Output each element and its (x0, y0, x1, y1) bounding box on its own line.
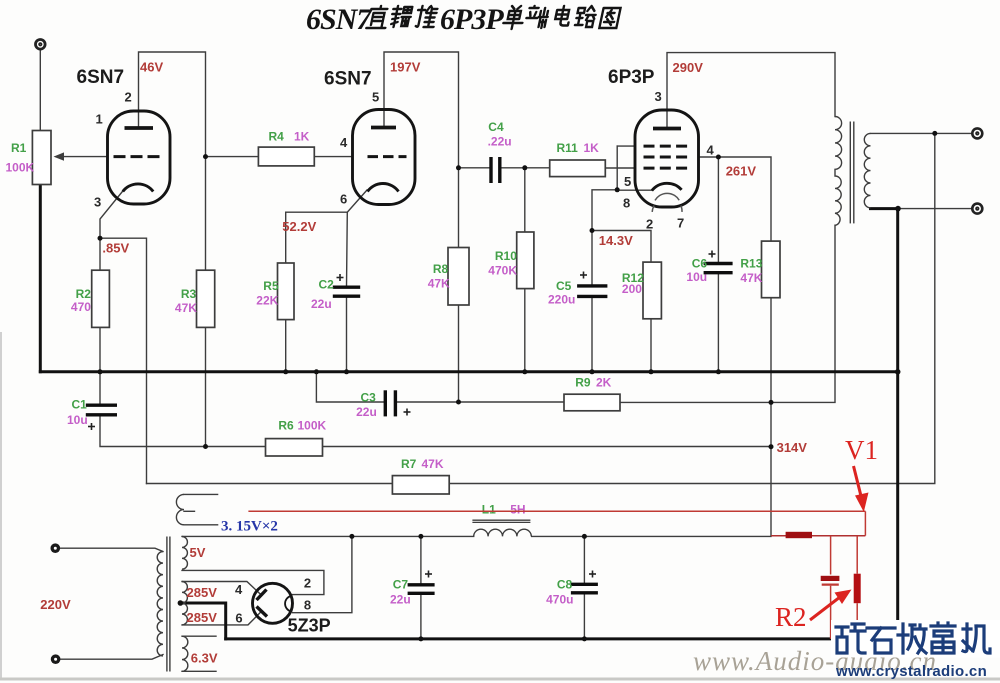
wire R10 top lead (524, 168, 526, 232)
svg-text:6P3P: 6P3P (608, 67, 655, 88)
wire 220V bottom terminal to primary (60, 655, 164, 660)
wire filament winding top tap (184, 493, 218, 495)
wire filament winding center tap (184, 510, 195, 512)
svg-text:6: 6 (340, 192, 347, 207)
wire R11 right to tube3 grid1 (605, 167, 635, 169)
wire B+ line from 5V winding to L1 (182, 535, 474, 537)
mains terminal top (51, 543, 61, 553)
resistor R6 (266, 439, 323, 456)
C6 plus (709, 253, 716, 255)
svg-text:C5: C5 (556, 279, 572, 293)
wire C6 bottom lead (717, 273, 719, 372)
title hanzi duan (524, 6, 550, 28)
inductor L1 core (472, 519, 530, 521)
red lower edge segment (771, 535, 865, 537)
svg-text:3: 3 (655, 89, 662, 104)
wire OPT secondary top feedback tap vertical drawn above (898, 208, 972, 210)
resistor R8 (448, 248, 469, 306)
tube V2 plate (653, 127, 681, 131)
svg-text:285V: 285V (187, 610, 218, 625)
junction ground line C8 (582, 636, 587, 641)
svg-text:10u: 10u (67, 413, 88, 427)
wire filament winding bottom tap (184, 524, 218, 526)
tube V1b cathode arc (368, 183, 399, 191)
tube V2 cathode arc (652, 183, 682, 190)
title hanzi dan (502, 6, 526, 29)
svg-text:L1: L1 (482, 503, 496, 517)
junction secondary top feedback tap (932, 131, 937, 136)
svg-text:46V: 46V (140, 60, 163, 75)
wire C1 top lead (99, 372, 101, 405)
ground bus (40, 370, 897, 373)
tube V2 heater arc (655, 193, 679, 200)
scan border left edge (0, 332, 2, 678)
junction B+ line C7 (418, 534, 423, 539)
junction ground bus C6 (716, 369, 721, 374)
rectifier plate pin6 (257, 607, 268, 617)
junction tube3 cathode tie (615, 187, 620, 192)
title hanzi tu (599, 8, 620, 28)
resistor R5 (278, 263, 295, 320)
red resistor R2-mod body (854, 574, 861, 604)
svg-text:4: 4 (340, 135, 348, 150)
wire 14.3V node to R12 top (592, 231, 651, 263)
svg-text:2: 2 (125, 90, 132, 105)
title hanzi dian (554, 6, 572, 26)
wire tube3 g2 to pin4 node (699, 156, 719, 158)
svg-text:.22u: .22u (488, 134, 512, 148)
resistor R7 (392, 476, 449, 494)
wire OPT secondary top to terminal (871, 132, 973, 134)
svg-text:22u: 22u (311, 297, 332, 311)
watermark white panel (831, 620, 1000, 658)
resistor R4 (258, 147, 314, 166)
junction ground bus R10 (522, 369, 527, 374)
svg-text:R5: R5 (263, 279, 279, 293)
svg-text:52.2V: 52.2V (282, 219, 316, 234)
wire B+ subrail R6 right to 314V node (323, 446, 772, 448)
wire R2 top lead (99, 238, 101, 270)
scan border bottom strip (0, 678, 1000, 681)
wire C7 bottom lead (420, 593, 422, 639)
wire C6 top lead (717, 157, 719, 264)
tube V2 grid1 dashes (644, 167, 691, 170)
junction R3 subrail (203, 444, 208, 449)
wire R1 bottom riser thick (39, 185, 42, 372)
svg-text:.85V: .85V (102, 240, 129, 255)
svg-text:V1: V1 (845, 435, 878, 465)
svg-text:7: 7 (677, 215, 684, 230)
svg-text:100K: 100K (298, 419, 327, 433)
svg-text:290V: 290V (673, 60, 704, 75)
junction 14.3V node (590, 228, 595, 233)
red branch resistor lead upper (856, 536, 858, 574)
PT 6.3V winding (182, 636, 188, 671)
svg-text:2: 2 (646, 216, 653, 231)
junction B+ line C8 (582, 534, 587, 539)
svg-text:C2: C2 (319, 278, 335, 292)
tube V2 heater leg pin2 (652, 206, 654, 212)
svg-text:220V: 220V (40, 597, 71, 612)
wire input terminal to R1 top (39, 49, 41, 131)
svg-text:4: 4 (235, 582, 243, 597)
svg-text:6P3P: 6P3P (440, 3, 504, 36)
svg-text:6SN7: 6SN7 (306, 3, 372, 36)
C3 plus (404, 411, 411, 413)
wire 220V top terminal to primary (60, 548, 164, 551)
annotation V1 arrow (854, 466, 862, 498)
junction ground line C7 (418, 636, 423, 641)
svg-text:R2: R2 (775, 602, 807, 632)
tube V2 grid2 dashes (644, 156, 691, 159)
watermark hanzi shou (898, 624, 926, 653)
red series resistor bar on line (786, 532, 812, 538)
wire R2 bottom lead (99, 327, 101, 371)
wire tube2 plate up over down to R8 (384, 52, 459, 248)
wire tube3 g3 stub and tie line (617, 145, 635, 147)
capacitor C5 plates (577, 284, 607, 287)
svg-text:5H: 5H (510, 503, 525, 517)
resistor R13 (762, 241, 781, 298)
tube V1a 6SN7 body (108, 111, 171, 204)
junction tube2 plate C4 (456, 165, 461, 170)
svg-text:14.3V: 14.3V (599, 233, 633, 248)
wire tube1 cathode pin3 diagonal (100, 191, 123, 238)
svg-text:10u: 10u (686, 270, 707, 284)
wire corner down to C2 top (346, 212, 349, 287)
wire C2 bottom lead (346, 296, 348, 372)
svg-text:R1: R1 (11, 141, 27, 155)
C2 plus (337, 277, 344, 279)
wire HT center tap to ground line (180, 603, 225, 639)
svg-text:8: 8 (304, 597, 311, 612)
junction secondary bottom ground (895, 206, 901, 212)
wire R13 bottom through ground to B+ vertical (770, 298, 772, 536)
R1 wiper arrow (54, 152, 65, 160)
wire OPT secondary bottom thick (871, 207, 899, 210)
wire R9 rail to OPT primary bottom (771, 225, 835, 402)
junction 314V subrail (769, 444, 774, 449)
title hanzi tui (415, 6, 438, 27)
junction tube1 plate R4 (203, 154, 208, 159)
svg-text:470: 470 (71, 300, 91, 314)
rectifier filament arc (285, 596, 291, 611)
svg-text:5: 5 (624, 174, 631, 189)
capacitor C6 plates (704, 262, 733, 265)
svg-text:R2: R2 (76, 287, 92, 301)
wire B+ line L1 to corner (532, 535, 771, 537)
svg-text:1: 1 (96, 112, 103, 127)
mains terminal bottom (51, 654, 61, 664)
wire tube1 grid to R1 wiper (59, 156, 108, 158)
tube V1a plate (125, 126, 154, 130)
junction R8 C3 rail (456, 400, 461, 405)
title hanzi zhi (366, 6, 390, 28)
svg-text:22u: 22u (390, 593, 411, 607)
capacitor C8 plates (571, 583, 598, 586)
resistor R12 (643, 262, 661, 319)
OPT secondary coil (864, 133, 870, 207)
junction ground bus C5 (590, 369, 595, 374)
wire 285V bottom tap to rectifier pin6 (182, 612, 261, 625)
svg-text:C6: C6 (692, 257, 708, 271)
wire C3 left plate to ground bus (316, 372, 385, 402)
tube V2 6P3P body (635, 110, 699, 207)
wire C8 bottom lead (583, 593, 585, 639)
junction ground bus R12 (649, 369, 654, 374)
svg-text:R7: R7 (401, 457, 417, 471)
wire tube1 plate up over to node A (139, 52, 206, 270)
resistor R1 (32, 131, 51, 185)
capacitor C1 plates (86, 404, 117, 407)
wire C5 bottom lead (591, 296, 593, 371)
wire 285V top tap to rectifier pin4 (182, 582, 261, 595)
svg-text:5: 5 (372, 90, 379, 105)
svg-text:R13: R13 (740, 257, 762, 271)
tube V1b 6SN7 body (353, 110, 416, 205)
wire rectifier pin8 to B+ line (293, 536, 352, 612)
svg-text:6SN7: 6SN7 (324, 69, 372, 90)
C1 plus (88, 426, 95, 428)
resistor R10 (517, 232, 534, 289)
annotation R2 arrow (810, 597, 840, 620)
red vertical V1 connection (864, 511, 866, 535)
svg-text:6SN7: 6SN7 (77, 67, 125, 88)
svg-text:C8: C8 (557, 578, 573, 592)
wire cathode stub tube3 (617, 189, 652, 191)
svg-text:314V: 314V (777, 440, 808, 455)
svg-text:4: 4 (707, 143, 715, 158)
svg-text:47K: 47K (740, 271, 762, 285)
capacitor C7 plates (408, 583, 435, 586)
capacitor C2 plates (333, 286, 360, 289)
svg-text:R8: R8 (433, 262, 449, 276)
svg-text:47K: 47K (422, 457, 444, 471)
svg-text:22u: 22u (356, 405, 377, 419)
red branch capacitor lead lower (830, 586, 832, 639)
svg-text:470K: 470K (488, 263, 517, 277)
svg-text:285V: 285V (187, 585, 218, 600)
svg-text:2K: 2K (596, 376, 612, 390)
junction pin4 screen C6 (716, 155, 721, 160)
wire R9 right to 314V vertical (620, 401, 771, 403)
title hanzi ou (390, 6, 413, 27)
svg-text:3. 15V×2: 3. 15V×2 (221, 519, 278, 535)
svg-text:R4: R4 (269, 130, 285, 144)
svg-text:200: 200 (622, 282, 642, 296)
PT 285V lower winding (182, 603, 187, 625)
svg-text:C4: C4 (488, 120, 504, 134)
tube V1b plate (371, 126, 396, 130)
wire C5 top lead (591, 231, 593, 286)
junction C4 R10 R11 (522, 165, 527, 170)
wire R3 bottom to B+ subrail (205, 327, 207, 446)
svg-text:2: 2 (304, 576, 311, 591)
C7 plus (425, 573, 432, 575)
svg-text:3: 3 (94, 195, 101, 210)
inductor L1 coil (474, 529, 532, 536)
ground bottom line (226, 637, 898, 640)
red branch capacitor lead upper (830, 536, 832, 575)
wire C4 right to R11 left (500, 167, 550, 169)
red heater line from filament CT (248, 510, 865, 512)
wire tube2 cathode pin6 diagonal (347, 190, 367, 212)
tube V2 heater leg pin7 (681, 206, 682, 212)
svg-text:197V: 197V (390, 60, 421, 75)
resistor R11 (550, 160, 606, 177)
wire R4 right to tube2 grid (314, 156, 352, 158)
filament winding 3.15Vx2 (176, 494, 184, 524)
junction ground bus C2 (344, 369, 349, 374)
wire R12 bottom lead (650, 319, 652, 372)
wire C1 bottom lead and subrail left (100, 415, 266, 447)
junction tube1 cathode (98, 236, 103, 241)
junction 314V vertical R9 rail (769, 400, 774, 405)
wire rectifier pin2 to 5V winding bottom (182, 570, 324, 594)
svg-text:C7: C7 (393, 578, 409, 592)
red capacitor R2-mod plate2 (822, 583, 839, 585)
svg-text:47K: 47K (175, 301, 197, 315)
wire 6.3V bottom tap (182, 670, 216, 672)
junction B+ line pin8 (349, 534, 354, 539)
svg-text:R9: R9 (575, 376, 591, 390)
wire R10 bottom lead (524, 289, 526, 372)
wire C4 node left (459, 167, 492, 169)
svg-text:22K: 22K (256, 293, 278, 307)
wire C8 top lead (583, 536, 585, 584)
svg-text:5Z3P: 5Z3P (288, 616, 331, 636)
wire feedback line left segment to R7 (147, 483, 393, 485)
watermark hanzi yin (931, 623, 955, 653)
watermark hanzi shi (867, 628, 895, 653)
wire tube3 plate up over to OPT primary top (667, 53, 835, 129)
wire C7 top lead (420, 536, 422, 584)
svg-text:220u: 220u (548, 293, 575, 307)
watermark hanzi kuang (836, 624, 865, 653)
input terminal (36, 40, 46, 50)
wire 6.3V top tap (182, 635, 216, 637)
capacitor C3 plates (384, 390, 387, 416)
junction ground bus corner (895, 369, 901, 375)
svg-text:1K: 1K (584, 141, 600, 155)
PT primary coil (157, 552, 163, 656)
C5 plus (580, 274, 587, 276)
ground right vertical (896, 209, 899, 639)
watermark hanzi ji (963, 624, 990, 653)
svg-text:470u: 470u (546, 593, 573, 607)
svg-text:8: 8 (623, 196, 630, 211)
svg-text:R11: R11 (557, 141, 579, 155)
wire g3 vertical tie (616, 146, 618, 190)
wire cathode node right then down to feedback line (100, 238, 147, 483)
OPT primary coil (835, 117, 842, 226)
output terminal top (972, 128, 982, 138)
OPT core lines (849, 122, 851, 224)
junction HT center tap (178, 600, 184, 606)
wire R8 bottom to C3/R9 rail (458, 305, 460, 402)
junction ground bus R5 (283, 369, 288, 374)
tube V1a cathode arc (123, 184, 153, 192)
svg-text:C1: C1 (72, 398, 88, 412)
red branch resistor lead lower (856, 603, 858, 639)
svg-text:5V: 5V (190, 545, 206, 560)
rectifier 5Z3P circle (253, 583, 293, 623)
svg-text:R3: R3 (181, 287, 197, 301)
junction ground bus C3 (314, 369, 319, 374)
resistor R3 (197, 270, 215, 327)
output terminal bottom (972, 204, 982, 214)
wire corner to R5 top (286, 212, 348, 263)
resistor R9 (564, 394, 620, 411)
svg-text:47K: 47K (428, 277, 450, 291)
wire C3 right to R8 node to R9 left (395, 401, 564, 403)
wire pin4 node to R13 top (718, 157, 771, 241)
svg-text:www.crystalradio.cn: www.crystalradio.cn (835, 663, 987, 680)
tube V1a grid dashes (114, 155, 162, 158)
PT core lines (166, 537, 168, 672)
resistor R2 (92, 270, 110, 327)
wire node A to R4 left (206, 156, 259, 158)
svg-text:1K: 1K (294, 130, 310, 144)
rectifier plate pin4 (257, 590, 267, 601)
svg-text:100K: 100K (6, 161, 35, 175)
svg-text:6.3V: 6.3V (191, 650, 218, 665)
wire cathode node to 14.3V node (592, 190, 617, 231)
junction ground bus R2 (98, 369, 103, 374)
PT 5V winding (182, 537, 187, 570)
wire R5 bottom lead (285, 320, 287, 372)
svg-text:6: 6 (235, 610, 242, 625)
svg-text:R6: R6 (278, 419, 294, 433)
tube V1b grid dashes (368, 155, 407, 158)
wire feedback line R7 right to secondary top (449, 133, 935, 483)
svg-text:R10: R10 (495, 249, 517, 263)
tube V2 grid3 dashes (644, 145, 691, 148)
PT 285V upper winding (182, 582, 187, 604)
red capacitor R2-mod plate1 (821, 576, 840, 581)
svg-text:261V: 261V (726, 163, 757, 178)
svg-text:C3: C3 (361, 390, 377, 404)
title hanzi lu (575, 6, 598, 27)
capacitor C4 plates (489, 157, 492, 183)
C8 plus (589, 573, 596, 575)
